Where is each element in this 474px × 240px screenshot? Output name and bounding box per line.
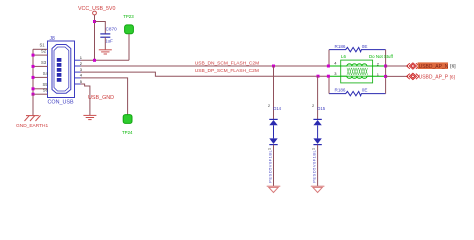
- TVS diode D14 wire top: [273, 66, 275, 119]
- right riser wire: [385, 50, 387, 94]
- pin S1 stub wire: [33, 48, 48, 50]
- svg-text:USB_GND: USB_GND: [88, 95, 114, 101]
- pin S5 stub wire: [33, 88, 48, 90]
- USB_GND wire from pin5: [81, 84, 90, 115]
- svg-text:S4: S4: [43, 71, 49, 76]
- svg-text:1uF: 1uF: [105, 39, 113, 44]
- svg-text:PESD5V0F1BL: PESD5V0F1BL: [312, 149, 317, 182]
- choke bottom winding: [347, 76, 367, 78]
- svg-text:GND_EARTH1: GND_EARTH1: [16, 123, 48, 129]
- left shield bus wire: [32, 49, 34, 94]
- connector pin 4 stub: [75, 77, 81, 79]
- left riser wire bottom: [328, 76, 330, 93]
- svg-text:L6: L6: [341, 54, 346, 59]
- D15 lower diode triangle: [313, 138, 321, 144]
- mini-USB receptacle outline: [52, 45, 71, 94]
- svg-text:S6: S6: [43, 88, 49, 93]
- left riser wire top: [328, 50, 330, 66]
- junction D14 on DN: [272, 65, 275, 68]
- pin S3 stub wire: [33, 65, 48, 67]
- wire to off-page USBD_AP_N: [386, 65, 408, 67]
- junction choke pin: [384, 65, 387, 68]
- USB_DN wire pin2 to choke pin4: [81, 65, 329, 67]
- wire to earth ground: [32, 94, 34, 115]
- svg-text:VCC_USB_5V0: VCC_USB_5V0: [78, 6, 115, 12]
- ground symbol USB_GND: [83, 115, 96, 119]
- svg-text:D14: D14: [273, 106, 281, 111]
- VBUS pin1 wire: [81, 59, 130, 61]
- svg-text:0E: 0E: [362, 44, 368, 49]
- D14 upper diode triangle: [269, 120, 277, 125]
- choke pin 3 stub: [328, 75, 347, 77]
- junction choke pin: [327, 75, 330, 78]
- off-page connector symbol USBD_AP_N: [407, 63, 420, 69]
- choke winding base lines: [341, 65, 373, 67]
- svg-text:2: 2: [268, 104, 270, 108]
- D14 lower diode triangle: [269, 138, 277, 144]
- connector pin 5 stub: [75, 83, 81, 85]
- VCC power symbol circle: [93, 11, 97, 15]
- TVS diode D15 wire top: [317, 76, 319, 119]
- connector contacts: [57, 58, 62, 62]
- junction on shield bus: [32, 93, 35, 96]
- svg-text:S5: S5: [43, 82, 49, 87]
- choke core hatching: [347, 68, 368, 75]
- D14 lower diode cathode bar: [269, 144, 277, 146]
- D15 ground arrow symbol: [311, 186, 325, 192]
- D15 upper diode triangle: [313, 120, 321, 125]
- pin S2 stub wire: [33, 54, 48, 56]
- common-mode choke L6 box: [341, 60, 373, 83]
- off-page connector symbol USBD_AP_P: [407, 73, 420, 79]
- wire branch to capacitor: [95, 22, 106, 34]
- junction choke pin: [327, 65, 330, 68]
- wire cap to gnd: [104, 37, 106, 50]
- choke pin 1 stub: [367, 75, 386, 77]
- svg-text:R186: R186: [335, 44, 346, 49]
- pin S6 stub wire: [33, 93, 48, 95]
- resistor R186 top body: [329, 47, 386, 51]
- junction on shield bus: [32, 65, 35, 68]
- svg-text:1: 1: [267, 148, 271, 150]
- svg-text:TP24: TP24: [122, 130, 133, 135]
- TP24 wire from pin4: [81, 78, 128, 115]
- svg-text:PESD5V0F1BL: PESD5V0F1BL: [267, 149, 272, 182]
- choke pin 2 stub: [367, 65, 386, 67]
- pin S4 stub wire: [33, 76, 48, 78]
- svg-text:S1: S1: [40, 43, 46, 48]
- svg-text:R186: R186: [335, 88, 346, 93]
- TP23 wire: [128, 34, 130, 61]
- svg-text:1: 1: [311, 148, 315, 150]
- D14 middle wire: [273, 125, 275, 138]
- D15 lower diode cathode bar: [313, 144, 321, 146]
- wire to off-page USBD_AP_P: [386, 75, 408, 77]
- D15 wire to ground: [317, 145, 319, 187]
- earth chassis ground symbol: [25, 115, 41, 121]
- junction on shield bus: [32, 76, 35, 79]
- USBD_AP_N highlighted label: [418, 62, 448, 69]
- svg-text:USB_DN_SCM_FLASH_C2M: USB_DN_SCM_FLASH_C2M: [195, 61, 259, 67]
- svg-text:J8: J8: [50, 36, 56, 42]
- svg-text:TP23: TP23: [123, 14, 134, 19]
- svg-text:USBD_AP_P: USBD_AP_P: [419, 74, 449, 80]
- junction on shield bus: [32, 87, 35, 90]
- choke pin 4 stub: [328, 65, 347, 67]
- svg-text:[6]: [6]: [450, 74, 455, 80]
- junction VBUS: [93, 59, 96, 62]
- svg-text:S2: S2: [41, 49, 47, 54]
- connector pin 2 stub: [75, 65, 81, 67]
- junction choke pin: [384, 75, 387, 78]
- D15 middle wire: [317, 125, 319, 138]
- svg-text:S3: S3: [41, 60, 47, 65]
- D15 upper diode cathode bar: [313, 118, 321, 120]
- junction D15 on DP: [317, 75, 320, 78]
- D14 wire to ground: [273, 145, 275, 187]
- svg-text:[6]: [6]: [450, 64, 455, 70]
- test point TP24: [123, 115, 132, 124]
- VCC wire down to pin1: [94, 15, 96, 60]
- svg-text:USBD_AP_N: USBD_AP_N: [419, 64, 449, 70]
- svg-text:0E: 0E: [362, 88, 368, 93]
- svg-text:2: 2: [312, 104, 314, 108]
- resistor R186 bottom body: [329, 91, 386, 95]
- svg-text:CON_USB: CON_USB: [48, 99, 74, 105]
- choke top winding: [347, 64, 367, 66]
- svg-text:USB_DP_SCM_FLASH_C2M: USB_DP_SCM_FLASH_C2M: [195, 68, 259, 74]
- D14 ground arrow symbol: [267, 186, 281, 192]
- connector pin 1 stub: [75, 59, 81, 61]
- D14 upper diode cathode bar: [269, 118, 277, 120]
- USB_DP wire pin3 to choke pin3: [81, 72, 329, 76]
- connector J8 body: [48, 41, 75, 98]
- junction VCC branch: [93, 20, 96, 23]
- connector pin 3 stub: [75, 71, 81, 73]
- svg-text:Do Not Stuff: Do Not Stuff: [369, 54, 394, 59]
- ground symbol under C870: [99, 50, 112, 54]
- junction on shield bus: [32, 54, 35, 57]
- svg-text:D15: D15: [317, 106, 325, 111]
- svg-text:C870: C870: [106, 26, 118, 31]
